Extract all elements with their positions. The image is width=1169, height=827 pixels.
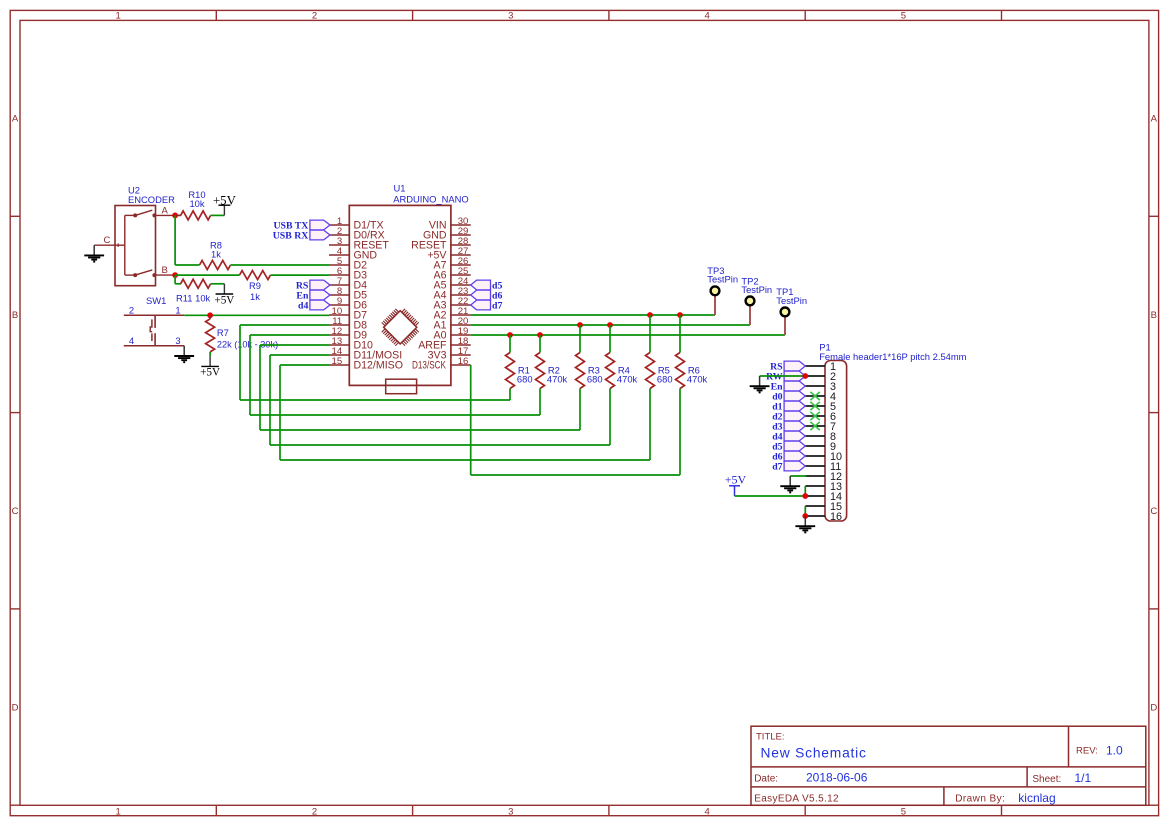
svg-text:2: 2: [129, 304, 134, 315]
svg-text:ENCODER: ENCODER: [128, 194, 175, 205]
svg-text:D: D: [12, 703, 19, 714]
no-connect flag: [810, 402, 819, 410]
svg-text:B: B: [162, 265, 168, 276]
wire pin13 to pin14: [804, 486, 806, 496]
svg-text:1.0: 1.0: [1106, 743, 1123, 757]
wire A2 net: [471, 314, 715, 316]
junction: [802, 493, 808, 499]
svg-text:1: 1: [116, 806, 121, 817]
resistor R7: [206, 315, 279, 352]
resistor R2: [536, 353, 568, 389]
svg-text:470k: 470k: [617, 373, 638, 384]
svg-text:U1: U1: [394, 183, 406, 194]
svg-text:680: 680: [657, 373, 673, 384]
svg-text:+5V: +5V: [213, 193, 237, 207]
svg-text:d7: d7: [772, 462, 782, 473]
svg-text:4: 4: [704, 11, 709, 22]
wire: [509, 389, 511, 401]
svg-text:C: C: [104, 235, 111, 246]
junction at R7: [207, 312, 213, 318]
svg-text:TestPin: TestPin: [741, 284, 772, 295]
svg-text:4: 4: [129, 335, 134, 346]
wire: [209, 352, 211, 356]
wire pin15 to pin16: [804, 506, 806, 516]
junction (R6 top): [677, 312, 683, 318]
svg-text:SW1: SW1: [146, 295, 166, 306]
svg-text:16: 16: [830, 511, 842, 523]
junction (R3 top): [577, 322, 583, 328]
wire: [579, 389, 581, 431]
net flag En (pin 8): [296, 290, 330, 302]
ground (RW net): [750, 376, 770, 392]
svg-text:3: 3: [508, 806, 513, 817]
svg-text:1/1: 1/1: [1075, 771, 1092, 785]
svg-text:EasyEDA V5.5.12: EasyEDA V5.5.12: [754, 793, 839, 804]
net flag RW (P1 pin 2): [766, 371, 805, 383]
net flag d7 (P1 pin 11): [772, 461, 805, 473]
net flag d2 (P1 pin 6): [772, 411, 805, 423]
svg-text:C: C: [1150, 506, 1157, 517]
svg-text:5: 5: [901, 806, 906, 817]
wire: [679, 389, 681, 476]
svg-text:+5V: +5V: [200, 367, 220, 379]
ground at U2 pin C: [84, 245, 104, 261]
wire R8 to D2: [231, 264, 330, 266]
svg-text:C: C: [12, 506, 19, 517]
wire: [679, 315, 681, 353]
svg-text:kicnlag: kicnlag: [1018, 791, 1055, 805]
junction: [802, 373, 808, 379]
svg-text:A: A: [1151, 114, 1158, 125]
net flag d6 (P1 pin 10): [772, 451, 805, 463]
svg-text:Female header1*16P pitch 2.54m: Female header1*16P pitch 2.54mm: [819, 351, 966, 362]
resistor R10: [181, 189, 211, 220]
wire: [280, 364, 329, 366]
junction node A: [172, 213, 178, 219]
svg-text:15: 15: [332, 356, 343, 367]
svg-text:4: 4: [704, 806, 709, 817]
junction (R5 top): [647, 312, 653, 318]
resistor R5: [646, 353, 673, 389]
net flag d7 (pin 22): [471, 300, 503, 312]
svg-text:Sheet:: Sheet:: [1032, 774, 1061, 785]
svg-text:10k: 10k: [189, 198, 204, 209]
wire +5V to pin14: [735, 495, 806, 497]
svg-text:3: 3: [175, 335, 180, 346]
svg-text:1: 1: [116, 11, 121, 22]
junction: [802, 513, 808, 519]
resistor R9: [240, 271, 271, 303]
net flag d4 (P1 pin 8): [772, 431, 805, 443]
ground (P1 pin 12): [780, 476, 800, 492]
op IC U1 ARDUINO_NANO: [329, 183, 471, 394]
ground at SW1 pin 3: [174, 346, 194, 362]
wire: [539, 335, 541, 353]
wire: [609, 389, 611, 446]
svg-text:Date:: Date:: [754, 773, 778, 784]
svg-text:1k: 1k: [250, 291, 260, 302]
junction node B: [172, 272, 178, 278]
wire R9 to D3: [271, 274, 330, 276]
net flag RS (pin 7): [296, 280, 330, 292]
connector P1: [805, 342, 966, 524]
wire SW1 to D7: [184, 314, 329, 316]
net flag USB RX (pin 2): [273, 230, 330, 242]
wire: [649, 315, 651, 353]
svg-text:470k: 470k: [687, 373, 708, 384]
svg-text:TITLE:: TITLE:: [756, 732, 785, 743]
test pin TP3: [707, 265, 738, 315]
resistor R6: [676, 353, 708, 389]
svg-text:USB RX: USB RX: [273, 231, 309, 242]
svg-text:680: 680: [517, 373, 533, 384]
svg-text:680: 680: [587, 373, 603, 384]
svg-text:B: B: [12, 310, 18, 321]
svg-text:d7: d7: [492, 301, 502, 312]
svg-text:+5V: +5V: [214, 294, 234, 306]
power +5V (R11): [214, 284, 234, 307]
wire: [539, 389, 541, 416]
no-connect flag: [810, 412, 819, 420]
rotary encoder U2: [94, 184, 175, 285]
svg-text:5: 5: [901, 11, 906, 22]
power +5V (P1): [725, 473, 747, 496]
svg-text:R9: R9: [249, 280, 261, 291]
net flag d5 (pin 24): [471, 280, 503, 292]
power +5V (R7): [200, 356, 220, 379]
no-connect flag: [810, 422, 819, 430]
svg-text:d4: d4: [298, 301, 308, 312]
wire: [649, 389, 651, 461]
svg-text:1k: 1k: [211, 249, 221, 260]
wire A1 net: [471, 324, 750, 326]
wire: [211, 214, 225, 216]
svg-text:R7: R7: [217, 327, 229, 338]
wire: [240, 324, 329, 326]
wire: [211, 283, 225, 285]
svg-text:B: B: [1151, 310, 1157, 321]
wire: [250, 334, 329, 336]
junction (R4 top): [607, 322, 613, 328]
svg-text:+5V: +5V: [725, 473, 747, 487]
no-connect flag: [810, 392, 819, 400]
switch SW1: [124, 295, 184, 346]
net flag En (P1 pin 3): [771, 381, 806, 393]
title block: [751, 726, 1146, 805]
net flag USB TX (pin 1): [273, 220, 330, 232]
svg-text:D13/SCK: D13/SCK: [412, 360, 446, 372]
svg-text:470k: 470k: [547, 373, 568, 384]
svg-text:D: D: [1150, 703, 1157, 714]
svg-text:A: A: [12, 114, 19, 125]
wire D13/SCK: [470, 365, 472, 475]
svg-text:TestPin: TestPin: [776, 295, 807, 306]
wire pin12: [790, 475, 806, 477]
resistor R8: [200, 240, 231, 270]
wire RW to ground: [760, 375, 806, 377]
wire: [260, 344, 329, 346]
net flag d5 (P1 pin 9): [772, 441, 805, 453]
svg-text:2: 2: [312, 11, 317, 22]
svg-text:TestPin: TestPin: [707, 274, 738, 285]
svg-text:2018-06-06: 2018-06-06: [806, 770, 868, 784]
svg-text:16: 16: [458, 356, 469, 367]
junction (R2 top): [537, 332, 543, 338]
net flag RS (P1 pin 1): [770, 361, 805, 373]
svg-text:1: 1: [175, 304, 180, 315]
net flag d1 (P1 pin 5): [772, 401, 805, 413]
test pin TP2: [741, 275, 772, 325]
svg-text:New Schematic: New Schematic: [761, 746, 867, 761]
net flag d3 (P1 pin 7): [772, 421, 805, 433]
svg-text:3: 3: [508, 11, 513, 22]
net flag d4 (pin 9): [298, 300, 330, 312]
wire B down to R11: [174, 275, 176, 284]
svg-text:A: A: [162, 205, 169, 216]
svg-text:D12/MISO: D12/MISO: [354, 360, 403, 372]
wire B to R9: [175, 274, 239, 276]
svg-text:2: 2: [312, 806, 317, 817]
power +5V (R10): [213, 193, 237, 215]
wire: [270, 354, 329, 356]
junction (R1 top): [507, 332, 513, 338]
svg-text:ARDUINO_NANO: ARDUINO_NANO: [393, 194, 469, 205]
svg-text:REV:: REV:: [1076, 745, 1098, 756]
wire: [175, 214, 181, 216]
wire: [609, 325, 611, 353]
test pin TP1: [776, 286, 807, 335]
wire A to R8: [174, 215, 176, 265]
svg-text:Drawn By:: Drawn By:: [955, 794, 1005, 805]
wire: [509, 335, 511, 353]
ground (P1 pin 16): [795, 516, 815, 532]
net flag d0 (P1 pin 4): [772, 391, 805, 403]
resistor R1: [506, 353, 533, 389]
wire A0 net: [471, 334, 785, 336]
net flag d6 (pin 23): [471, 290, 503, 302]
svg-text:R11 10k: R11 10k: [176, 293, 211, 304]
resistor R3: [576, 353, 603, 389]
wire: [579, 325, 581, 353]
resistor R11: [176, 279, 211, 303]
resistor R4: [606, 353, 638, 389]
